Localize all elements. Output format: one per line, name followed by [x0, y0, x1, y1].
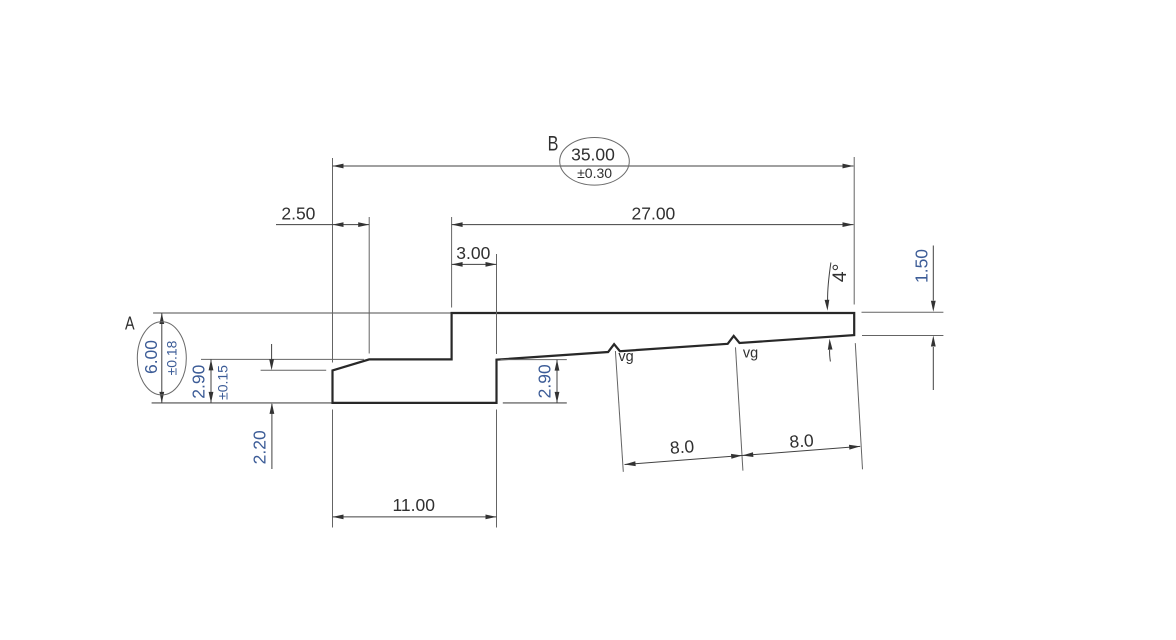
extension line 1.50 top right (y=311.5) — [862, 311, 944, 313]
svg-text:2.50: 2.50 — [281, 204, 315, 224]
extension line 11.00 left — [332, 410, 334, 528]
dimension 2.90 middle — [535, 360, 560, 403]
svg-text:2.90: 2.90 — [535, 364, 555, 398]
svg-text:8.0: 8.0 — [789, 430, 815, 452]
svg-text:35.00: 35.00 — [571, 145, 615, 165]
extension line at left end (x=332.5) — [332, 158, 334, 363]
svg-text:±0.18: ±0.18 — [163, 340, 179, 375]
svg-text:B: B — [548, 131, 559, 155]
surface mark label vg 2 — [743, 345, 758, 361]
extension line 2.50 right (x=369) — [368, 217, 370, 354]
svg-text:4°: 4° — [829, 264, 851, 283]
svg-text:1.50: 1.50 — [911, 249, 931, 283]
label A — [125, 313, 135, 334]
slanted extension line at vg notch 2 — [736, 347, 743, 470]
extension line right end (x=854) — [853, 157, 855, 305]
svg-text:11.00: 11.00 — [392, 495, 435, 515]
extension line mid 2.90 top (y=359.6) — [501, 359, 567, 361]
svg-text:6.00: 6.00 — [141, 340, 161, 374]
svg-text:3.00: 3.00 — [456, 243, 490, 263]
dimension 3.00 — [452, 243, 497, 267]
extension line 2.20 top level (y=370.3) — [261, 369, 327, 371]
svg-text:±0.15: ±0.15 — [214, 365, 230, 400]
slanted extension line at right end below profile — [855, 343, 862, 469]
svg-text:±0.30: ±0.30 — [577, 165, 612, 181]
angle dimension 4 degrees — [825, 263, 851, 362]
svg-text:8.0: 8.0 — [669, 436, 695, 458]
extension line 3.00 right (x=496.5) — [496, 254, 498, 354]
dimensions 8.0 and 8.0 along sloped face — [625, 430, 861, 466]
profile outline (part cross-section) — [333, 313, 855, 403]
extension line 27.00/3.00 left (x=451.6) — [451, 217, 453, 308]
bottom reference line right part — [503, 402, 567, 404]
dimension 27.00 — [452, 204, 854, 227]
bottom reference line left part — [152, 402, 333, 404]
extension line 2.90 left level (y=359.4) — [201, 358, 364, 360]
svg-text:2.20: 2.20 — [250, 430, 270, 464]
extension line 11.00 right — [496, 410, 498, 528]
label B — [548, 131, 559, 155]
svg-text:A: A — [125, 313, 135, 334]
surface mark label vg 1 — [618, 349, 633, 365]
dimension 2.90 +/-0.15 left — [189, 359, 231, 403]
svg-text:vg: vg — [618, 349, 633, 365]
slanted extension line at vg notch 1 — [615, 351, 623, 472]
dimension 2.20 — [250, 344, 275, 469]
svg-text:2.90: 2.90 — [189, 364, 209, 398]
svg-text:vg: vg — [743, 345, 758, 361]
dimension 6.00 +/-0.18 with balloon ellipse — [137, 313, 186, 403]
dimension 1.50 — [911, 246, 935, 391]
dimension 11.00 — [333, 495, 497, 519]
dimension 2.50 — [276, 204, 369, 227]
datum line A (top horizontal reference line) — [153, 312, 453, 314]
extension line 1.50 bottom right (y=335.5) — [862, 335, 943, 337]
svg-text:27.00: 27.00 — [632, 204, 676, 224]
dimension 35.00 +/-0.30 with balloon ellipse — [333, 138, 854, 186]
